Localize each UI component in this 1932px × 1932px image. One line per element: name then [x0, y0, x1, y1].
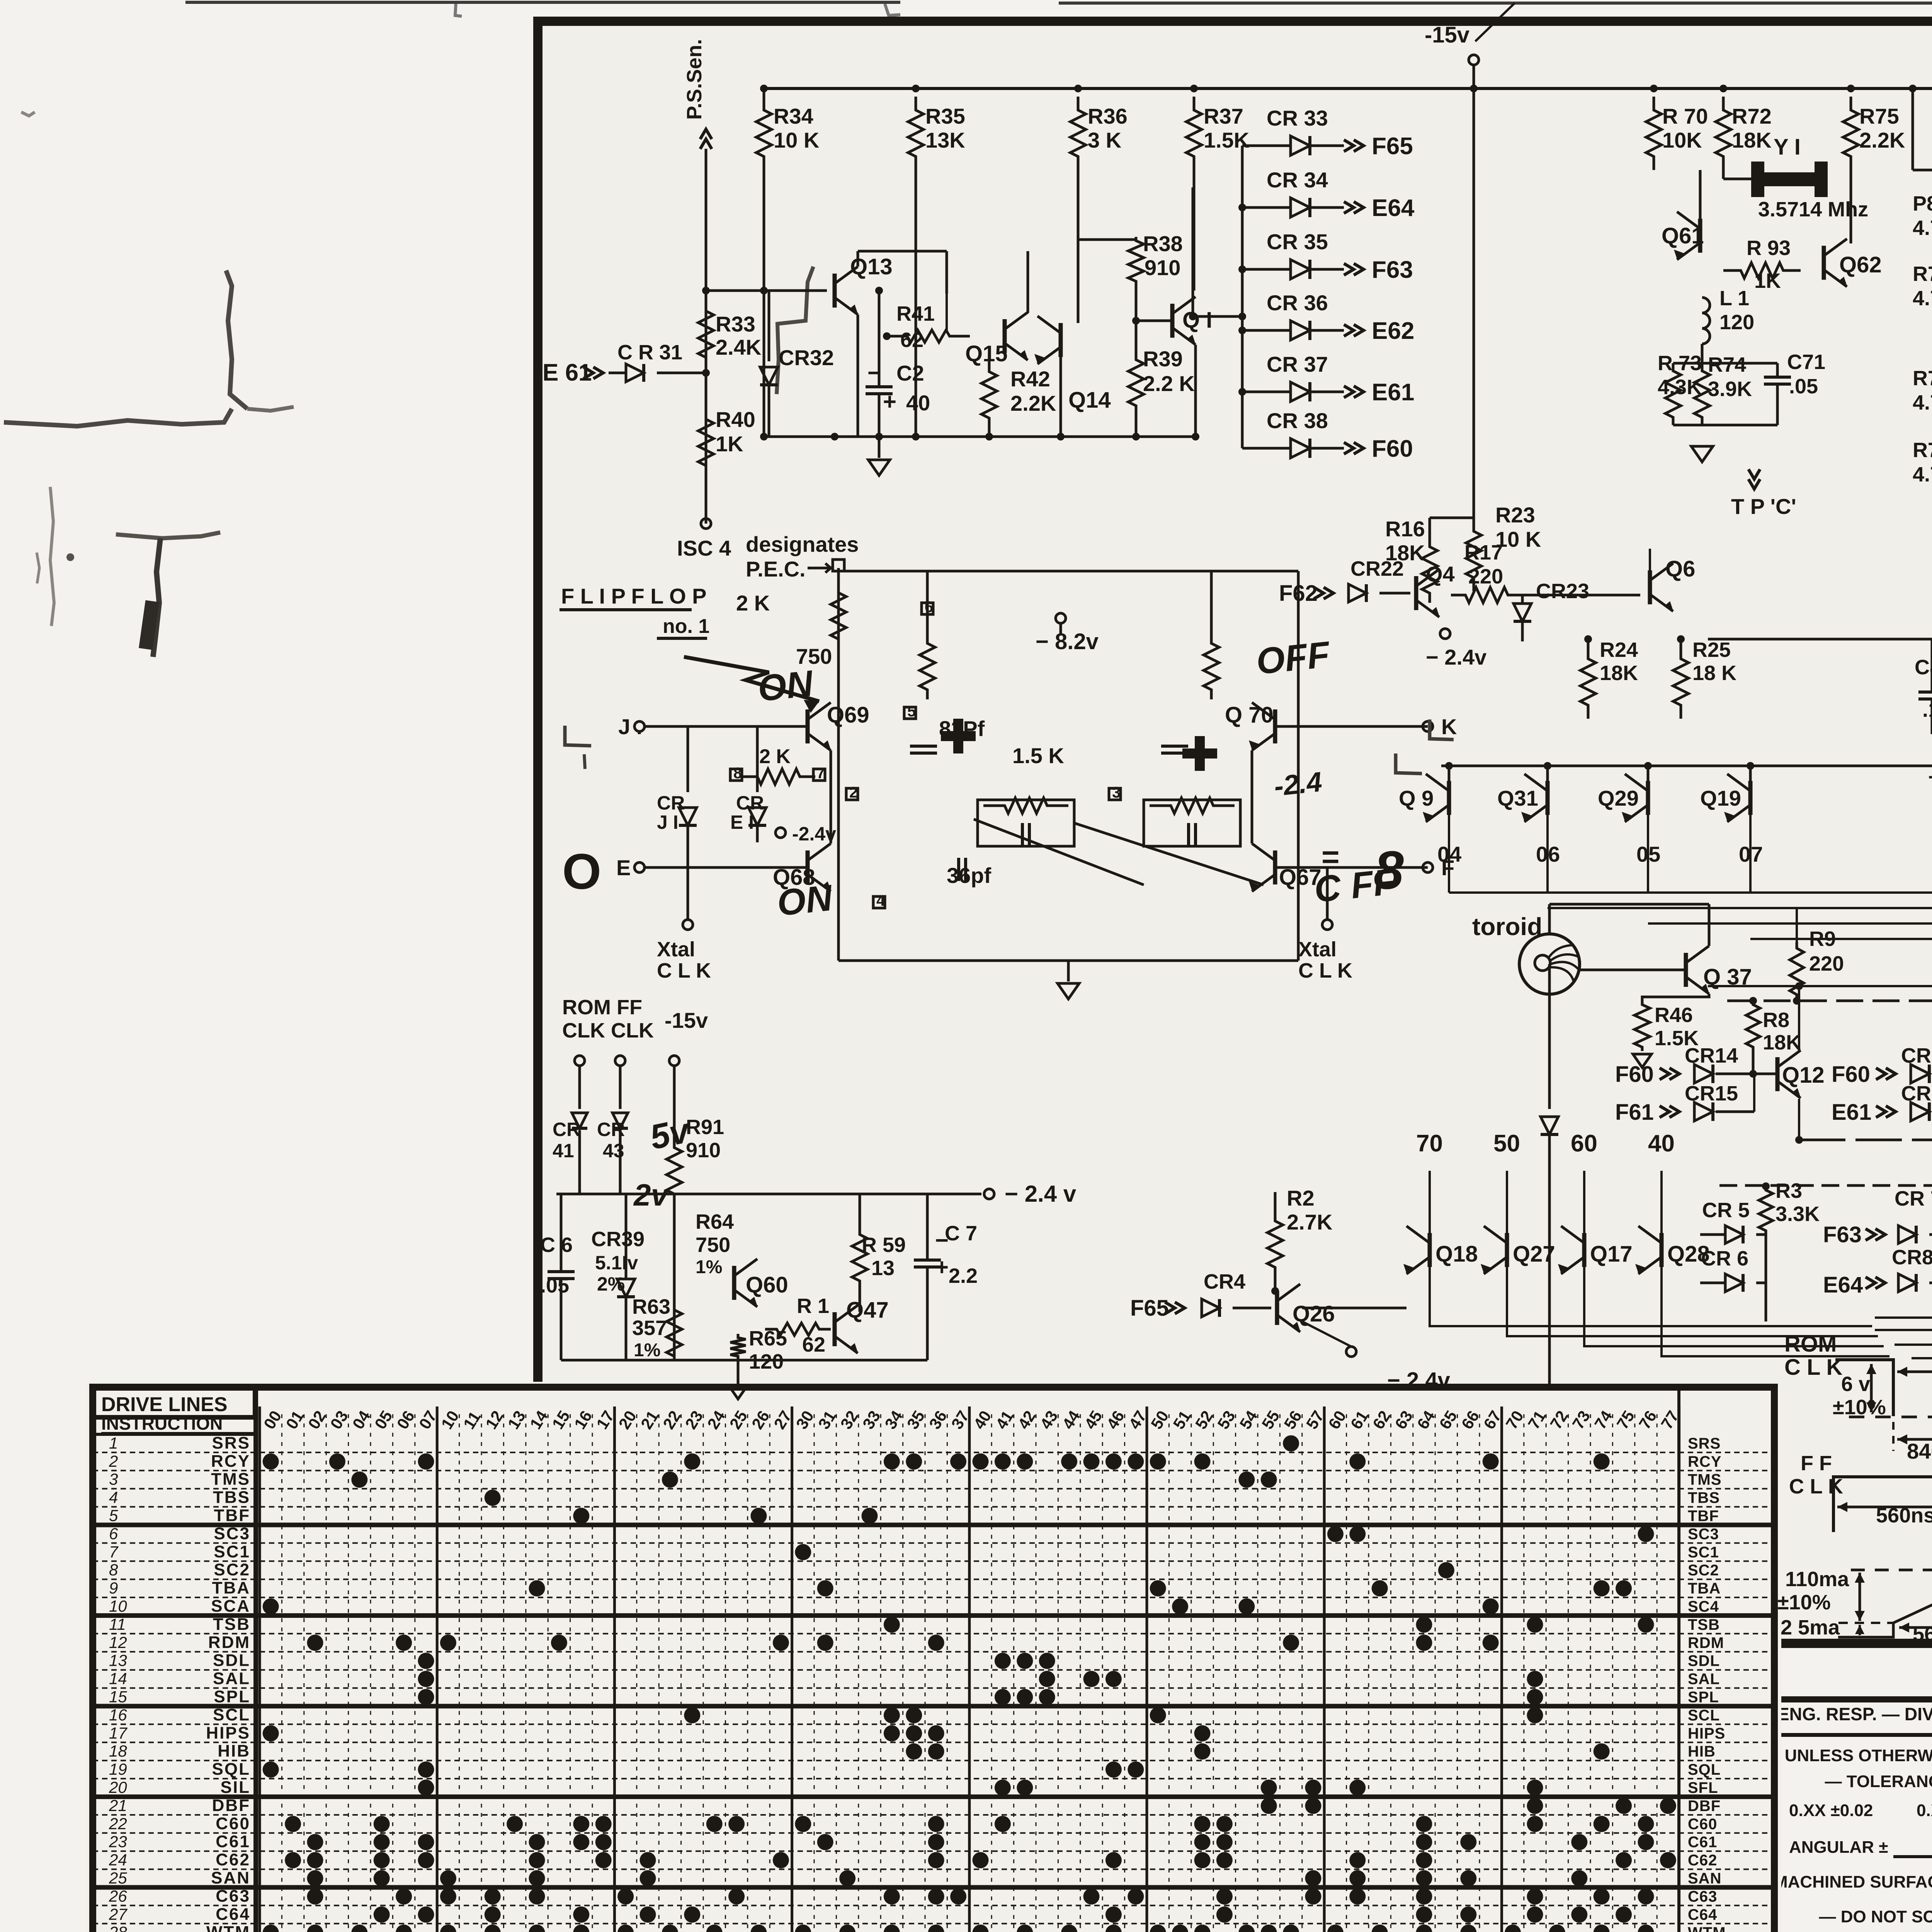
svg-text:R63: R63: [632, 1295, 670, 1318]
svg-text:R17: R17: [1464, 541, 1503, 564]
svg-text:CR 7: CR 7: [1895, 1187, 1932, 1210]
svg-text:220: 220: [1468, 565, 1503, 588]
svg-text:C L K: C L K: [1298, 959, 1352, 982]
svg-text:=: =: [1321, 840, 1340, 874]
svg-text:2 K: 2 K: [736, 591, 770, 615]
svg-text:ROM FF: ROM FF: [562, 996, 642, 1019]
svg-text:C61: C61: [216, 1832, 250, 1851]
svg-text:CR 35: CR 35: [1267, 230, 1328, 254]
svg-text:910: 910: [686, 1139, 721, 1162]
svg-text:SC1: SC1: [214, 1542, 250, 1561]
svg-text:RDM: RDM: [208, 1633, 250, 1652]
svg-text:2v: 2v: [633, 1178, 670, 1212]
svg-text:120: 120: [749, 1350, 784, 1373]
svg-text:T P 'C': T P 'C': [1731, 494, 1796, 519]
svg-text:F60: F60: [1832, 1062, 1870, 1087]
svg-text:R42: R42: [1010, 367, 1050, 391]
svg-text:TBS: TBS: [213, 1488, 250, 1507]
svg-text:TBF: TBF: [214, 1506, 250, 1525]
svg-text:CR 33: CR 33: [1267, 106, 1328, 130]
svg-text:9: 9: [109, 1579, 118, 1597]
svg-text:1%: 1%: [634, 1340, 660, 1361]
svg-text:C64: C64: [216, 1905, 250, 1923]
svg-text:R 1: R 1: [797, 1294, 829, 1318]
svg-text:2.2K: 2.2K: [1010, 391, 1056, 415]
svg-text:36pf: 36pf: [947, 863, 991, 888]
svg-text:5: 5: [109, 1507, 118, 1525]
svg-text:26: 26: [109, 1887, 127, 1905]
svg-text:Q15: Q15: [965, 341, 1008, 366]
svg-text:840ns ± 20ns: 840ns ± 20ns: [1907, 1439, 1932, 1463]
svg-text:3 K: 3 K: [1088, 128, 1121, 152]
svg-text:SAN: SAN: [1688, 1870, 1721, 1887]
svg-text:R64: R64: [696, 1210, 734, 1233]
svg-text:F61: F61: [1615, 1100, 1654, 1125]
svg-text:R33: R33: [716, 312, 755, 336]
svg-text:SPL: SPL: [1688, 1689, 1719, 1706]
svg-text:SRS: SRS: [212, 1434, 250, 1452]
svg-text:4.7K: 4.7K: [1913, 287, 1932, 310]
svg-text:C63: C63: [216, 1886, 250, 1905]
svg-text:C71: C71: [1787, 350, 1825, 374]
svg-text:Q27: Q27: [1513, 1242, 1555, 1267]
svg-text:18: 18: [109, 1742, 127, 1760]
svg-text:C60: C60: [216, 1814, 250, 1833]
svg-text:WTM: WTM: [1688, 1924, 1726, 1932]
svg-text:120: 120: [1719, 311, 1754, 334]
svg-text:— TOLERANCES —: — TOLERANCES —: [1825, 1772, 1932, 1791]
svg-text:TSB: TSB: [213, 1615, 250, 1634]
svg-text:CR 5: CR 5: [1702, 1199, 1750, 1222]
svg-text:Q19: Q19: [1700, 786, 1741, 810]
svg-text:C8: C8: [1915, 656, 1932, 679]
svg-text:E64: E64: [1372, 195, 1415, 221]
svg-text:110ma: 110ma: [1785, 1568, 1849, 1591]
svg-text:2 5ma: 2 5ma: [1781, 1616, 1840, 1639]
svg-text:13: 13: [871, 1257, 895, 1280]
svg-text:8: 8: [733, 765, 742, 782]
svg-text:ISC 4: ISC 4: [677, 536, 731, 560]
svg-text:R75: R75: [1859, 104, 1899, 128]
svg-text:220: 220: [1809, 952, 1844, 975]
svg-text:4: 4: [876, 892, 885, 909]
svg-text:E: E: [616, 855, 631, 880]
svg-text:CR 38: CR 38: [1267, 408, 1328, 433]
svg-text:3.3K: 3.3K: [1776, 1202, 1820, 1226]
svg-text:R76: R76: [1913, 262, 1932, 286]
svg-text:1: 1: [109, 1434, 118, 1452]
svg-text:Q26: Q26: [1293, 1301, 1335, 1327]
svg-text:R8: R8: [1763, 1009, 1789, 1032]
svg-text:Q6: Q6: [1665, 556, 1695, 582]
svg-text:357: 357: [632, 1316, 667, 1340]
svg-text:Q14: Q14: [1068, 388, 1111, 413]
svg-text:Q47: Q47: [846, 1298, 889, 1323]
svg-text:DBF: DBF: [1688, 1798, 1721, 1815]
svg-text:— DO NOT SCALE —: — DO NOT SCALE —: [1819, 1907, 1932, 1926]
svg-text:SQL: SQL: [212, 1760, 250, 1779]
svg-text:J .: J .: [618, 714, 642, 739]
svg-text:HIPS: HIPS: [1688, 1725, 1725, 1742]
svg-text:4.3K: 4.3K: [1658, 376, 1702, 399]
svg-text:60: 60: [1571, 1130, 1597, 1157]
svg-text:WTM: WTM: [206, 1923, 250, 1932]
svg-text:6 v: 6 v: [1841, 1372, 1870, 1396]
svg-text:R23: R23: [1495, 503, 1535, 527]
svg-text:.05: .05: [1789, 375, 1818, 398]
svg-text:Q62: Q62: [1839, 252, 1882, 277]
svg-text:C63: C63: [1688, 1888, 1717, 1905]
svg-text:DRIVE LINES: DRIVE LINES: [101, 1393, 228, 1416]
svg-text:7: 7: [816, 765, 825, 782]
svg-text:SC3: SC3: [1688, 1526, 1719, 1543]
svg-text:2.7K: 2.7K: [1287, 1210, 1332, 1234]
svg-text:− 8.2v: − 8.2v: [1036, 629, 1099, 654]
svg-text:SCA: SCA: [211, 1597, 250, 1616]
svg-text:Q28: Q28: [1667, 1242, 1710, 1267]
svg-text:18K: 18K: [1732, 128, 1772, 152]
svg-text:25: 25: [109, 1869, 127, 1887]
svg-text:-2.4: -2.4: [1272, 766, 1323, 802]
svg-text:R16: R16: [1385, 517, 1425, 541]
svg-text:SFL: SFL: [1688, 1779, 1718, 1796]
svg-text:Q I: Q I: [1182, 308, 1212, 333]
svg-text:Q4: Q4: [1426, 562, 1455, 586]
svg-text:R37: R37: [1204, 104, 1243, 128]
svg-text:R 93: R 93: [1747, 236, 1791, 260]
svg-text:R40: R40: [716, 407, 755, 432]
svg-text:±10%: ±10%: [1833, 1396, 1886, 1419]
svg-text:.1: .1: [1922, 698, 1932, 721]
svg-text:10K: 10K: [1662, 128, 1702, 152]
svg-text:Q13: Q13: [850, 254, 893, 279]
svg-text:P.S.Sen.: P.S.Sen.: [683, 39, 706, 120]
svg-text:R46: R46: [1655, 1003, 1693, 1027]
svg-text:ON: ON: [775, 877, 835, 924]
svg-text:2 K: 2 K: [759, 745, 791, 768]
svg-text:UNLESS OTHERWISE NOTED: UNLESS OTHERWISE NOTED: [1785, 1746, 1932, 1765]
svg-text:Q12: Q12: [1782, 1063, 1825, 1088]
svg-text:R77: R77: [1913, 367, 1932, 390]
svg-text:SC1: SC1: [1688, 1544, 1719, 1561]
svg-text:750: 750: [696, 1233, 730, 1257]
svg-text:19: 19: [109, 1760, 127, 1778]
svg-text:− 2.4v: − 2.4v: [1387, 1368, 1450, 1393]
svg-text:ENG. RESP. — DIV.: ENG. RESP. — DIV.: [1777, 1704, 1932, 1724]
svg-text:E61: E61: [1372, 379, 1414, 406]
svg-text:L 1: L 1: [1719, 287, 1749, 310]
svg-text:CR23: CR23: [1536, 580, 1589, 603]
svg-text:− 2.4 v: − 2.4 v: [1005, 1181, 1077, 1207]
svg-text:R 70: R 70: [1662, 104, 1708, 128]
svg-text:SC3: SC3: [214, 1524, 250, 1543]
svg-text:C64: C64: [1688, 1906, 1717, 1923]
svg-text:SPL: SPL: [214, 1687, 250, 1706]
svg-text:MACHINED SURFACES: MACHINED SURFACES: [1774, 1872, 1932, 1891]
svg-text:CR4: CR4: [1204, 1270, 1245, 1293]
svg-text:12: 12: [109, 1633, 127, 1651]
svg-text:1.5 K: 1.5 K: [1012, 743, 1064, 768]
svg-text:2: 2: [109, 1452, 118, 1470]
svg-text:SC2: SC2: [214, 1560, 250, 1579]
svg-text:R38: R38: [1143, 231, 1183, 256]
svg-text:CR 34: CR 34: [1267, 168, 1328, 192]
svg-text:560ns: 560ns: [1913, 1622, 1932, 1646]
svg-text:DBF: DBF: [212, 1796, 250, 1815]
svg-text:R74: R74: [1708, 353, 1746, 376]
svg-text:10: 10: [109, 1597, 127, 1615]
svg-text:CR 16: CR 16: [1901, 1044, 1932, 1067]
svg-text:E I: E I: [730, 811, 754, 833]
svg-text:±10%: ±10%: [1777, 1591, 1831, 1614]
svg-text:21: 21: [109, 1796, 127, 1815]
svg-text:11: 11: [109, 1615, 126, 1633]
svg-text:C 7: C 7: [945, 1222, 977, 1245]
svg-text:TBA: TBA: [212, 1578, 250, 1597]
svg-text:2.4K: 2.4K: [716, 335, 761, 359]
svg-text:24: 24: [109, 1851, 127, 1869]
svg-text:1%: 1%: [696, 1257, 722, 1277]
svg-text:J I: J I: [657, 811, 679, 833]
svg-text:C L K: C L K: [1784, 1355, 1842, 1380]
svg-text:−15v: −15v: [1928, 765, 1932, 789]
svg-text:62: 62: [802, 1333, 825, 1356]
svg-text:toroid: toroid: [1472, 913, 1542, 940]
svg-text:Q29: Q29: [1598, 786, 1639, 810]
svg-text:CR 17: CR 17: [1901, 1082, 1932, 1105]
svg-text:SIL: SIL: [221, 1778, 250, 1797]
svg-text:ROM: ROM: [1784, 1332, 1837, 1357]
svg-text:-15v: -15v: [1425, 22, 1469, 48]
svg-text:16: 16: [109, 1706, 127, 1724]
svg-text:SCL: SCL: [213, 1705, 250, 1724]
svg-text:17: 17: [109, 1724, 128, 1742]
svg-text:-15v: -15v: [665, 1008, 708, 1032]
svg-text:15: 15: [109, 1688, 127, 1706]
svg-text:Q18: Q18: [1435, 1242, 1478, 1267]
svg-text:13: 13: [109, 1651, 127, 1670]
svg-text:2.2 K: 2.2 K: [1143, 371, 1195, 396]
svg-text:RDM: RDM: [1688, 1634, 1724, 1651]
svg-text:3.9K: 3.9K: [1708, 378, 1752, 401]
svg-text:C60: C60: [1688, 1816, 1717, 1833]
svg-text:Q31: Q31: [1497, 786, 1538, 810]
svg-text:Q17: Q17: [1590, 1242, 1633, 1267]
svg-text:TMS: TMS: [211, 1470, 250, 1489]
svg-text:Xtal: Xtal: [657, 938, 695, 961]
svg-text:CR14: CR14: [1685, 1044, 1738, 1067]
svg-text:SAL: SAL: [213, 1669, 250, 1688]
svg-text:R9: R9: [1809, 927, 1836, 951]
svg-text:ANGULAR ±: ANGULAR ±: [1789, 1838, 1888, 1857]
svg-text:0.XXX ±0.005: 0.XXX ±0.005: [1917, 1801, 1932, 1820]
svg-text:F63: F63: [1823, 1222, 1862, 1247]
svg-text:18 K: 18 K: [1692, 662, 1736, 685]
svg-text:41: 41: [553, 1140, 574, 1162]
svg-text:-2.4v: -2.4v: [792, 823, 836, 845]
svg-text:SC4: SC4: [1688, 1598, 1719, 1615]
svg-text:70: 70: [1416, 1130, 1443, 1157]
svg-text:K: K: [1441, 714, 1457, 739]
svg-text:4.7K: 4.7K: [1913, 216, 1932, 240]
svg-text:27: 27: [109, 1905, 128, 1923]
svg-text:6: 6: [925, 599, 933, 616]
svg-text:2.2: 2.2: [949, 1264, 978, 1287]
svg-text:E64: E64: [1823, 1272, 1863, 1298]
svg-text:CR39: CR39: [591, 1228, 645, 1251]
svg-text:7: 7: [109, 1543, 119, 1561]
svg-text:P.E.C.: P.E.C.: [746, 557, 806, 581]
svg-text:40: 40: [906, 391, 930, 415]
svg-text:F65: F65: [1372, 133, 1413, 160]
svg-text:2.2K: 2.2K: [1859, 128, 1905, 152]
svg-text:C L K: C L K: [657, 959, 711, 982]
svg-text:R34: R34: [774, 104, 813, 128]
svg-text:14: 14: [109, 1670, 127, 1688]
svg-text:Y I: Y I: [1774, 134, 1801, 160]
svg-text:18K: 18K: [1600, 662, 1638, 685]
svg-text:R65: R65: [749, 1327, 787, 1350]
svg-text:4.7K: 4.7K: [1913, 463, 1932, 486]
svg-text:HIB: HIB: [218, 1742, 250, 1760]
svg-text:SCL: SCL: [1688, 1707, 1720, 1724]
svg-text:− 2.4v: − 2.4v: [1426, 645, 1486, 669]
svg-text:C R 31: C R 31: [617, 341, 682, 364]
svg-text:TBA: TBA: [1688, 1580, 1721, 1597]
svg-text:Q69: Q69: [827, 702, 869, 728]
svg-text:910: 910: [1145, 255, 1180, 280]
svg-text:1K: 1K: [716, 432, 743, 456]
svg-text:HIPS: HIPS: [206, 1723, 250, 1742]
svg-text:Q 70: Q 70: [1225, 702, 1274, 728]
svg-text:C61: C61: [1688, 1834, 1717, 1851]
svg-text:F65: F65: [1130, 1296, 1169, 1321]
svg-text:5: 5: [907, 703, 916, 720]
svg-text:Xtal: Xtal: [1298, 938, 1337, 961]
svg-text:INSTRUCTION: INSTRUCTION: [101, 1413, 223, 1434]
svg-text:CR8: CR8: [1892, 1246, 1932, 1269]
svg-text:SQL: SQL: [1688, 1761, 1721, 1778]
svg-text:SDL: SDL: [1688, 1653, 1720, 1670]
svg-text:HIB: HIB: [1688, 1743, 1716, 1760]
svg-text:0.XX ±0.02: 0.XX ±0.02: [1789, 1801, 1873, 1820]
svg-text:560ns: 560ns: [1876, 1504, 1932, 1527]
svg-text:TMS: TMS: [1688, 1471, 1721, 1488]
svg-text:C 6: C 6: [540, 1233, 573, 1257]
svg-text:F60: F60: [1615, 1062, 1654, 1087]
svg-text:CR22: CR22: [1350, 557, 1404, 580]
svg-text:SAL: SAL: [1688, 1671, 1720, 1688]
svg-text:CLK CLK: CLK CLK: [562, 1019, 654, 1042]
svg-text:23: 23: [109, 1833, 127, 1851]
svg-text:TSB: TSB: [1688, 1616, 1720, 1633]
svg-text:E61: E61: [1832, 1100, 1871, 1125]
svg-text:R41: R41: [896, 302, 935, 325]
svg-text:8: 8: [109, 1561, 118, 1579]
svg-text:10 K: 10 K: [774, 128, 819, 152]
svg-text:R39: R39: [1143, 347, 1183, 371]
svg-text:TBS: TBS: [1688, 1490, 1720, 1507]
svg-text:4: 4: [109, 1488, 118, 1507]
svg-text:F63: F63: [1372, 257, 1413, 283]
svg-text:18K: 18K: [1763, 1031, 1801, 1054]
svg-text:SDL: SDL: [213, 1651, 250, 1670]
svg-text:SAN: SAN: [211, 1869, 250, 1888]
svg-text:R25: R25: [1692, 638, 1731, 662]
svg-text:R24: R24: [1600, 638, 1638, 662]
svg-text:CR 36: CR 36: [1267, 291, 1328, 315]
svg-text:R36: R36: [1088, 104, 1128, 128]
svg-text:designates: designates: [746, 532, 859, 556]
svg-text:ON: ON: [756, 663, 816, 709]
svg-text:C2: C2: [896, 361, 924, 385]
svg-text:28: 28: [109, 1923, 127, 1932]
svg-text:RCY: RCY: [1688, 1453, 1721, 1470]
svg-text:50: 50: [1493, 1130, 1520, 1157]
svg-text:E 61: E 61: [543, 359, 592, 386]
svg-text:R35: R35: [925, 104, 965, 128]
svg-text:Q60: Q60: [746, 1272, 788, 1298]
svg-text:F60: F60: [1372, 435, 1413, 462]
svg-text:O: O: [562, 843, 601, 900]
svg-text:13K: 13K: [925, 128, 965, 152]
svg-text:SC2: SC2: [1688, 1562, 1719, 1579]
svg-text:F L I P F L O P: F L I P F L O P: [561, 584, 707, 608]
svg-text:R72: R72: [1732, 104, 1772, 128]
svg-text:Q 9: Q 9: [1399, 786, 1434, 810]
svg-text:R78: R78: [1913, 439, 1932, 462]
svg-text:P89: P89: [1913, 192, 1932, 215]
svg-text:R91: R91: [686, 1116, 724, 1139]
svg-text:22: 22: [109, 1815, 127, 1833]
svg-text:Q61: Q61: [1662, 223, 1704, 248]
svg-text:C62: C62: [1688, 1852, 1717, 1869]
svg-text:6: 6: [109, 1524, 118, 1543]
svg-text:RCY: RCY: [211, 1452, 250, 1471]
svg-text:E62: E62: [1372, 318, 1414, 344]
svg-text:SRS: SRS: [1688, 1435, 1721, 1452]
svg-text:R3: R3: [1776, 1179, 1802, 1202]
svg-text:OFF: OFF: [1254, 634, 1333, 682]
svg-text:no. 1: no. 1: [663, 615, 709, 638]
svg-text:40: 40: [1648, 1130, 1675, 1157]
svg-text:4.7K: 4.7K: [1913, 391, 1932, 414]
svg-text:3: 3: [109, 1470, 118, 1488]
svg-text:R2: R2: [1287, 1186, 1315, 1210]
svg-text:8: 8: [1374, 840, 1404, 900]
svg-text:CR32: CR32: [779, 345, 834, 370]
svg-text:C62: C62: [216, 1850, 250, 1869]
svg-text:CR 37: CR 37: [1267, 352, 1328, 376]
svg-text:2: 2: [849, 784, 858, 801]
svg-text:3: 3: [1112, 784, 1121, 801]
svg-text:5.1Iv: 5.1Iv: [595, 1252, 638, 1274]
svg-text:TBF: TBF: [1688, 1508, 1719, 1525]
svg-text:CR15: CR15: [1685, 1082, 1738, 1105]
svg-text:20: 20: [109, 1778, 127, 1796]
svg-text:F F: F F: [1801, 1452, 1832, 1475]
svg-text:F62: F62: [1279, 581, 1318, 606]
